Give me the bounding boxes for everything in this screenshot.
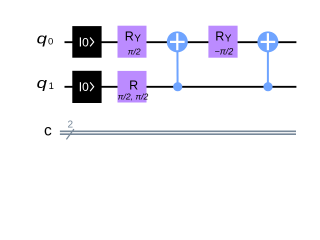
svg-text:0: 0 — [82, 35, 89, 49]
svg-text:0: 0 — [48, 36, 53, 47]
label q0 — [37, 30, 54, 47]
svg-text:−π/2: −π/2 — [215, 47, 234, 57]
svg-text:0: 0 — [82, 80, 89, 94]
svg-text:q: q — [37, 30, 48, 47]
cnot 2 connector — [267, 42, 269, 87]
gate RY(pi/2) on q0 — [118, 26, 147, 58]
svg-text:R: R — [129, 78, 138, 92]
classical bundle slash — [66, 129, 74, 139]
svg-text:R: R — [215, 30, 224, 44]
svg-text:π/2: π/2 — [128, 46, 141, 56]
cnot 2 control on q1 — [263, 82, 272, 91]
cnot 1 target on q0 — [167, 31, 188, 52]
classical wire c (double line) — [60, 130, 296, 132]
cnot 1 control on q1 — [173, 82, 182, 91]
svg-text:R: R — [125, 30, 134, 44]
wire q0 — [65, 41, 297, 43]
svg-text:π/2, π/2: π/2, π/2 — [118, 92, 149, 102]
reset |0> on q1 — [72, 71, 101, 103]
svg-text:c: c — [44, 123, 52, 140]
svg-text:Y: Y — [134, 34, 141, 45]
cnot 2 target on q0 — [257, 31, 278, 52]
svg-text:2: 2 — [68, 119, 74, 130]
gate RY(-pi/2) on q0 — [208, 26, 237, 58]
reset |0> on q0 — [72, 26, 101, 58]
svg-text:Y: Y — [225, 34, 232, 45]
gate R(pi/2, pi/2) on q1 — [118, 71, 149, 103]
svg-text:1: 1 — [49, 81, 54, 92]
label q1 — [37, 75, 54, 92]
wire q1 — [65, 86, 297, 88]
svg-text:q: q — [37, 75, 48, 92]
cnot 1 connector — [176, 42, 178, 87]
